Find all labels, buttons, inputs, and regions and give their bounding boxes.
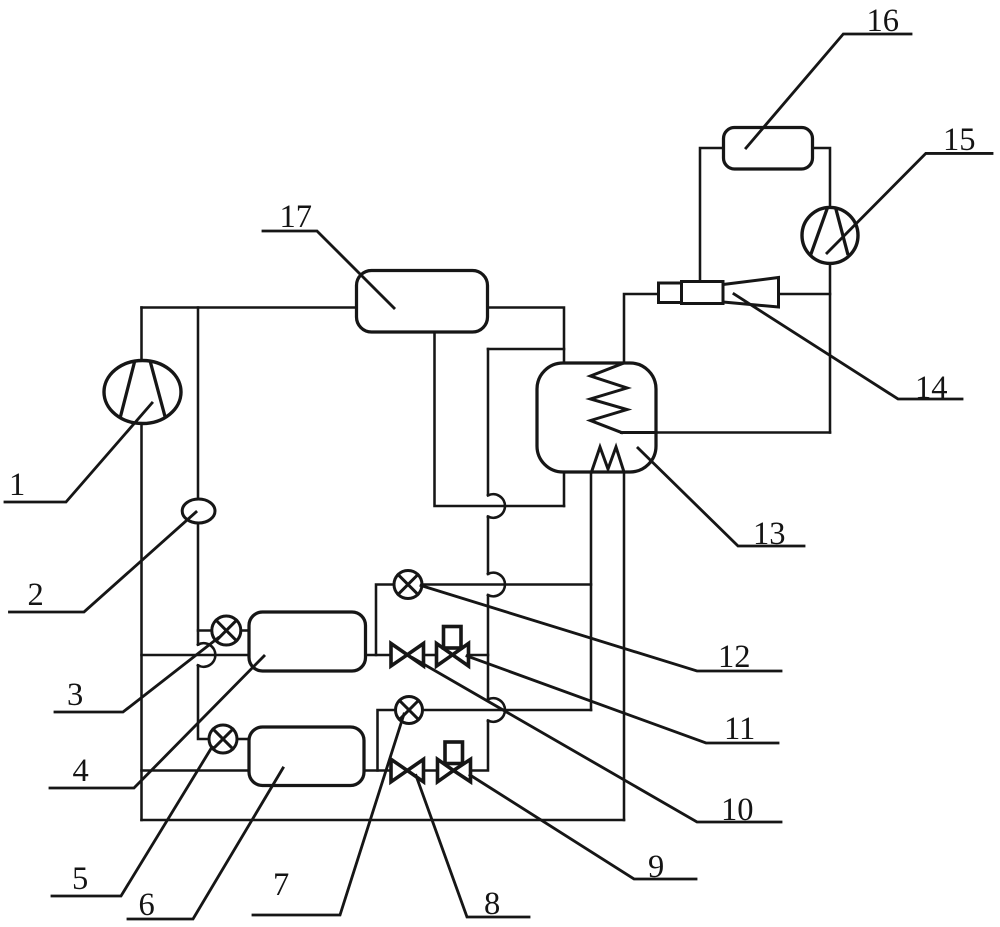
heater element M inside 13 — [592, 447, 625, 472]
wire: riser x=488 segment C — [487, 595, 490, 699]
wire: left feed y=770.5 — [142, 769, 250, 772]
leader 4 — [50, 656, 264, 788]
leader 7 — [253, 714, 404, 915]
leader 15 — [827, 153, 992, 253]
wire: branch up to valve 7 — [378, 710, 396, 771]
wire: up into evaporator 13 bottom — [563, 472, 566, 506]
svg-text:12: 12 — [718, 639, 751, 675]
wire: riser x=488 segment D to lower valve row — [471, 721, 489, 771]
solenoid valve 9 (lower row) — [438, 742, 471, 782]
wire: riser x=488 segment B — [487, 517, 490, 574]
wire: condenser 16 left line down to ejector — [700, 148, 724, 282]
wire: branch up to valve 12 — [376, 585, 394, 656]
svg-text:4: 4 — [73, 753, 89, 789]
svg-text:9: 9 — [648, 849, 664, 885]
wire: condenser 17 right to vertical — [487, 308, 564, 364]
wire: x=197 lower segment to valve 5 — [198, 665, 209, 739]
wire: ejector nozzle inlet from evaporator 13 — [624, 294, 659, 363]
wire: second vertical x=197 with sensor 2 — [197, 308, 200, 645]
evaporator/heat-exchanger 13 — [537, 363, 656, 472]
hop: x=197 over wire y=655 — [198, 643, 215, 667]
svg-text:8: 8 — [484, 886, 500, 922]
svg-text:2: 2 — [28, 577, 44, 613]
hop: riser over wire y=711.5 — [488, 698, 505, 722]
expansion valve 7 — [396, 697, 423, 724]
svg-text:15: 15 — [943, 122, 976, 158]
leader 1 — [5, 403, 152, 502]
svg-text:1: 1 — [9, 467, 25, 503]
leader 10 — [413, 658, 781, 822]
wire: between lower valves — [424, 769, 438, 772]
wire: valve 3 to evaporator rect — [241, 629, 249, 632]
stop valve 10 (upper row left bowtie) — [391, 644, 424, 667]
wire: compressor 1 suction/discharge vertical — [140, 308, 143, 363]
condenser 16 — [724, 128, 813, 170]
hop: riser over wire y=586.5 — [488, 573, 505, 597]
svg-text:11: 11 — [724, 711, 755, 747]
stop valve 8 (lower row left bowtie) — [391, 759, 424, 782]
wire: condenser 16 right line to compressor 15 — [813, 148, 831, 208]
wire: upper row rect to valves — [366, 654, 392, 657]
svg-text:16: 16 — [867, 3, 900, 39]
leader 14 — [734, 294, 962, 399]
expansion valve 3 — [212, 616, 241, 645]
leader 11 — [467, 656, 778, 743]
leader 8 — [416, 776, 529, 918]
svg-text:6: 6 — [139, 887, 155, 923]
compressor U1 (1) — [104, 361, 181, 424]
svg-text:17: 17 — [280, 199, 313, 235]
condenser 17 — [357, 271, 488, 333]
svg-text:14: 14 — [915, 370, 948, 406]
wire: left border down from compressor — [140, 422, 143, 820]
sensor 2 — [182, 499, 215, 523]
wire: lower row rect to valves — [364, 769, 391, 772]
expansion valve 5 — [209, 725, 237, 753]
leader 2 — [10, 512, 197, 612]
hop: riser over wire y=506 — [488, 494, 505, 518]
evaporator rect 4 (upper) — [249, 612, 366, 671]
leader 17 — [263, 231, 394, 308]
svg-text:7: 7 — [273, 867, 289, 903]
wire: condenser 17 bottom drop — [435, 332, 565, 506]
svg-text:13: 13 — [753, 516, 786, 552]
evaporator rect 6 (lower) — [249, 727, 364, 786]
leader 3 — [55, 638, 218, 712]
wire: left feed y=655 — [142, 654, 250, 657]
leader 9 — [470, 775, 696, 879]
wire: long riser x=488 segment A — [487, 349, 490, 495]
wire: valve 5 to lower rect — [237, 738, 249, 741]
wire: between upper valves — [424, 654, 437, 657]
wire: top header from compressor to condenser 17 — [142, 306, 356, 309]
leader 5 — [52, 747, 212, 896]
coil inside 13 — [591, 363, 628, 433]
ejector 14 — [659, 278, 779, 308]
wire: vertical x=591 from evaporator 13 — [590, 472, 593, 710]
svg-text:10: 10 — [721, 792, 754, 828]
svg-text:3: 3 — [67, 677, 83, 713]
svg-text:5: 5 — [72, 861, 88, 897]
wire: valve 12 to vertical x=591 — [422, 583, 591, 586]
wire: compressor 15 discharge down — [829, 263, 832, 433]
wire: valve 7 to vertical x=591 — [423, 709, 592, 712]
wire: stub to expansion valve 3 — [198, 629, 212, 632]
wire: branch y=348 from riser to vertical x=563 — [488, 348, 564, 351]
leader 6 — [128, 768, 283, 919]
leader 13 — [638, 448, 804, 546]
wire: vertical x=624 up to evaporator 13 — [623, 472, 626, 820]
leader 12 — [421, 586, 781, 672]
wire: upper solenoid to riser — [470, 654, 489, 657]
wire: coil outlet line to riser x=830 — [622, 431, 831, 434]
expansion valve 12 — [394, 571, 422, 599]
wire: branch to ejector diffuser — [779, 293, 831, 296]
coil outlet inside 13 — [622, 431, 657, 434]
leader 16 — [746, 34, 911, 148]
wire: bottom return line — [142, 819, 625, 822]
compressor 15 — [802, 207, 858, 263]
solenoid valve 11 (upper row) — [437, 627, 469, 667]
